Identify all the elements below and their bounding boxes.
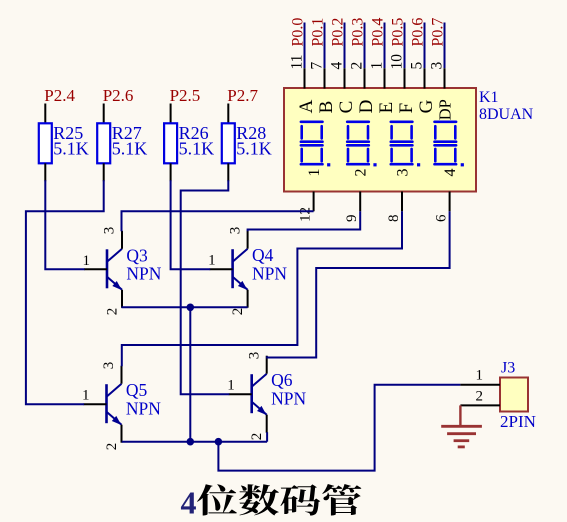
wire R26 to Q4 base: [171, 180, 211, 269]
K1 pin 6 (bottom): [449, 192, 451, 212]
svg-text:1: 1: [476, 368, 484, 384]
svg-text:3: 3: [227, 227, 243, 235]
wire P2.6 to R27: [103, 104, 105, 124]
svg-text:Q4: Q4: [252, 245, 274, 265]
svg-text:8DUAN: 8DUAN: [479, 106, 534, 123]
svg-text:5.1K: 5.1K: [179, 139, 215, 159]
svg-text:7: 7: [308, 62, 325, 70]
K1 pin 12 (bottom): [313, 192, 315, 212]
transistor Q6: [229, 356, 267, 433]
svg-text:5: 5: [408, 62, 425, 70]
svg-text:B: B: [316, 101, 337, 114]
svg-text:J3: J3: [501, 359, 515, 376]
svg-text:12: 12: [298, 207, 314, 222]
svg-text:2: 2: [104, 308, 120, 316]
K1 pin 8 (bottom): [401, 192, 403, 212]
svg-text:D: D: [356, 100, 377, 114]
transistor Q5: [84, 366, 122, 443]
wire net P0.5: [404, 23, 406, 69]
resistor R28 body: [222, 123, 235, 163]
ground: [441, 405, 482, 447]
wire net P0.1: [324, 23, 326, 69]
svg-text:P0.5: P0.5: [390, 18, 407, 47]
K1 pin 2 (top): [364, 68, 366, 88]
svg-text:F: F: [396, 103, 417, 114]
svg-text:1: 1: [227, 378, 235, 394]
transistor Q3: [84, 231, 122, 308]
wire R28 to Q6 base: [181, 180, 230, 394]
J3 pin 2: [460, 404, 500, 406]
resistor R25 body: [39, 123, 52, 163]
wire net P0.2: [344, 23, 346, 69]
svg-text:P2.4: P2.4: [44, 86, 75, 105]
junction dot: [187, 304, 195, 312]
wire R25 to Q3 base: [45, 180, 84, 269]
wire P2.4 to R25: [44, 104, 46, 124]
svg-text:Q5: Q5: [126, 380, 148, 400]
wire Q4 collector to K1 pin 9: [248, 211, 361, 231]
junction dot: [215, 438, 223, 446]
svg-text:1: 1: [368, 62, 385, 70]
K1 pin 4 (top): [344, 68, 346, 88]
wire Q6 collector to K1 pin 6: [267, 211, 450, 357]
svg-text:NPN: NPN: [126, 264, 161, 284]
svg-text:3: 3: [246, 352, 262, 360]
svg-text:P0.3: P0.3: [350, 18, 367, 47]
wire bus to J3 pin 1: [218, 385, 460, 471]
svg-text:1: 1: [208, 253, 216, 269]
svg-text:DP: DP: [436, 99, 455, 120]
svg-text:NPN: NPN: [126, 399, 161, 419]
7-seg display module K1 body: [284, 88, 476, 192]
wire net P0.0: [304, 23, 306, 69]
svg-text:P2.7: P2.7: [227, 86, 258, 105]
svg-text:11: 11: [288, 55, 305, 70]
resistor R26 body: [164, 123, 177, 163]
svg-text:4: 4: [442, 169, 459, 177]
svg-text:8: 8: [386, 215, 402, 223]
svg-text:K1: K1: [479, 89, 499, 106]
wire Q6 emitter stub: [266, 432, 268, 442]
wire emitter bus Q3-Q4: [122, 306, 248, 308]
svg-text:2: 2: [353, 169, 370, 177]
svg-text:5.1K: 5.1K: [236, 139, 271, 159]
svg-text:2: 2: [230, 308, 246, 316]
svg-text:Q6: Q6: [271, 370, 293, 390]
J3 pin 1: [460, 384, 500, 386]
K1 pin 1 (top): [384, 68, 386, 88]
wire emitter bus Q5-Q6: [122, 441, 267, 443]
svg-text:Q3: Q3: [126, 245, 148, 265]
connector J3 body: [500, 378, 528, 412]
wire net P0.3: [364, 23, 366, 69]
svg-text:NPN: NPN: [271, 389, 306, 409]
K1 pin 9 (bottom): [359, 192, 361, 212]
wire below R25: [44, 163, 46, 181]
wire below R28: [227, 163, 229, 181]
svg-text:5.1K: 5.1K: [53, 139, 89, 159]
svg-text:2PIN: 2PIN: [500, 412, 536, 431]
7-segment digit 2: [347, 122, 376, 167]
wire P2.5 to R26: [170, 104, 172, 124]
svg-text:E: E: [376, 102, 397, 114]
svg-text:1: 1: [82, 388, 90, 404]
wire net P0.6: [424, 23, 426, 69]
K1 pin 7 (top): [324, 68, 326, 88]
7-segment digit 3: [391, 122, 420, 167]
svg-text:3: 3: [428, 62, 445, 70]
svg-text:P0.1: P0.1: [310, 18, 327, 47]
svg-text:4: 4: [181, 485, 197, 521]
svg-text:P0.6: P0.6: [410, 18, 427, 47]
svg-text:P2.6: P2.6: [103, 86, 134, 105]
svg-text:2: 2: [348, 62, 365, 70]
svg-text:2: 2: [249, 433, 265, 441]
7-segment digit 4: [435, 122, 464, 167]
wire P2.7 to R28: [227, 104, 229, 124]
svg-text:P0.4: P0.4: [370, 18, 387, 47]
svg-text:5.1K: 5.1K: [112, 139, 148, 159]
svg-text:2: 2: [476, 389, 484, 405]
svg-text:P0.7: P0.7: [430, 18, 447, 47]
K1 pin 5 (top): [424, 68, 426, 88]
wire Q5 collector to K1 pin 8: [122, 211, 402, 366]
svg-text:4: 4: [328, 62, 345, 70]
svg-text:6: 6: [434, 214, 450, 222]
svg-text:A: A: [296, 99, 317, 113]
svg-text:9: 9: [344, 215, 360, 223]
wire net P0.4: [384, 23, 386, 69]
wire bus link vertical: [189, 307, 191, 441]
wire Q3 collector to K1 pin 12: [122, 211, 314, 231]
svg-text:G: G: [416, 99, 437, 113]
junction dot: [187, 438, 195, 446]
title 4位数码管: [181, 484, 362, 520]
svg-text:P0.2: P0.2: [330, 18, 347, 47]
svg-text:1: 1: [83, 253, 91, 269]
svg-text:3: 3: [102, 227, 118, 235]
K1 pin 10 (top): [404, 68, 406, 88]
wire below R27: [103, 163, 105, 181]
wire below R26: [170, 163, 172, 181]
resistor R27 body: [97, 123, 110, 163]
K1 pin 11 (top): [304, 68, 306, 88]
svg-text:2: 2: [104, 443, 120, 451]
K1 pin 3 (top): [444, 68, 446, 88]
transistor Q4: [210, 231, 248, 308]
svg-text:C: C: [336, 101, 357, 114]
svg-text:P0.0: P0.0: [290, 18, 307, 47]
svg-text:10: 10: [388, 54, 405, 70]
wire R27 to Q5 base: [26, 180, 104, 404]
7-segment digit 1: [301, 122, 330, 167]
svg-text:3: 3: [101, 362, 117, 370]
svg-text:3: 3: [395, 169, 412, 177]
svg-text:NPN: NPN: [252, 264, 287, 284]
svg-text:P2.5: P2.5: [170, 86, 201, 105]
svg-text:1: 1: [306, 169, 323, 177]
wire net P0.7: [444, 23, 446, 69]
